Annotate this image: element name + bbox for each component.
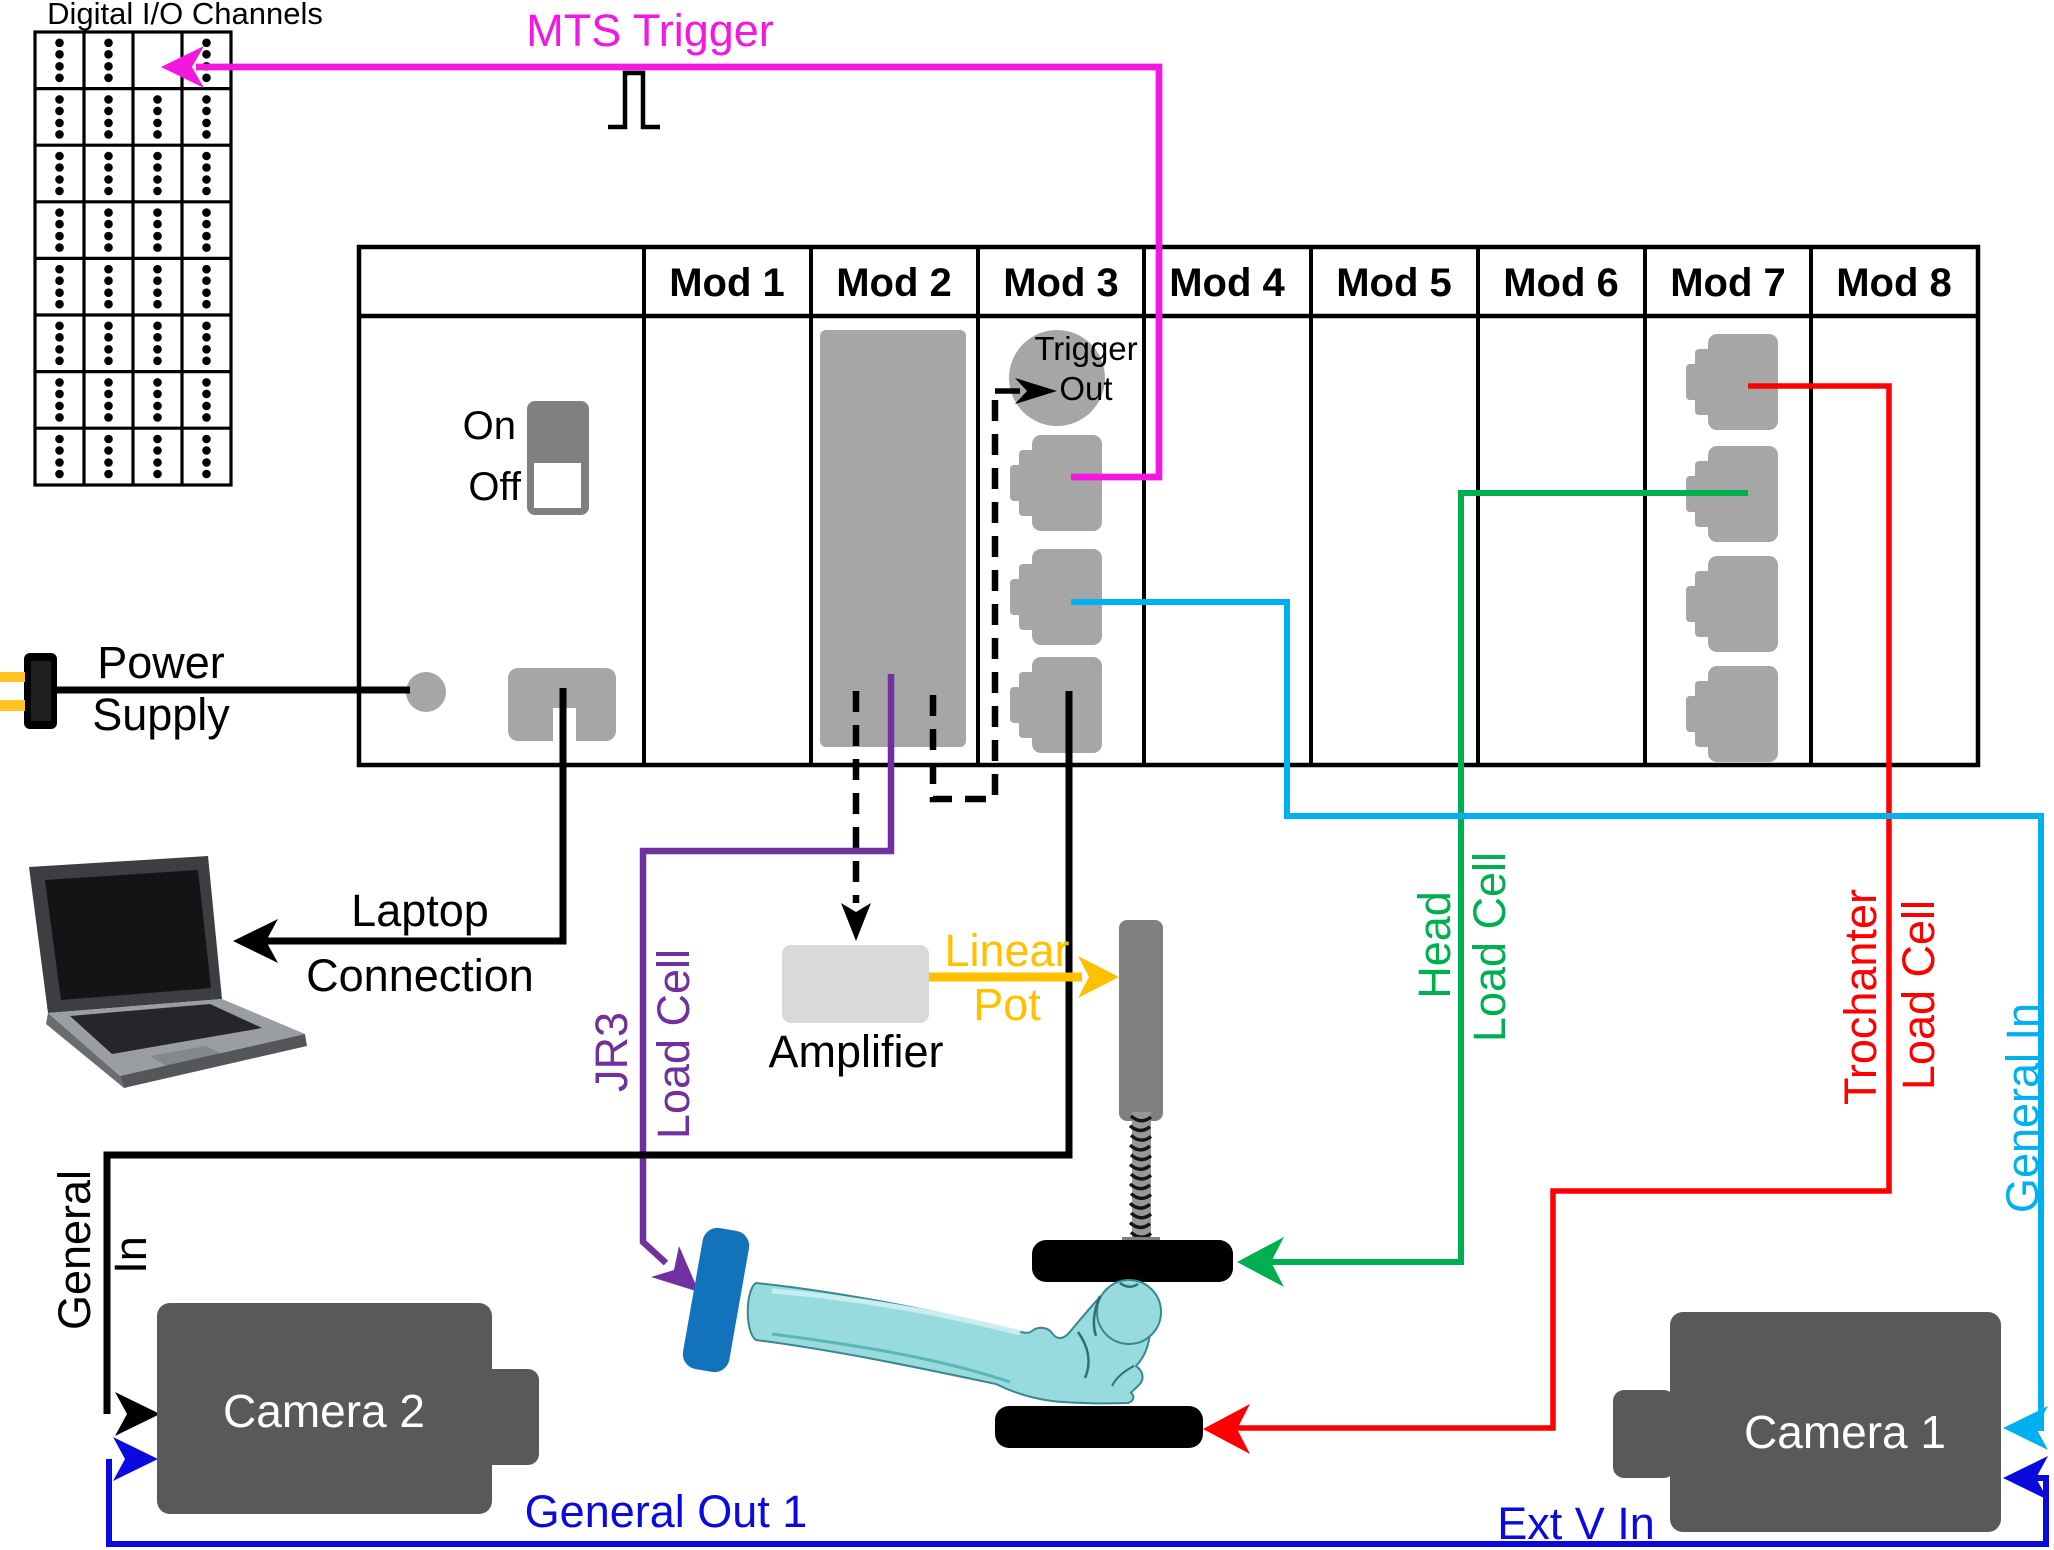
wire general in to camera 1 (cyan): [1071, 602, 2041, 1428]
svg-text:Mod 4: Mod 4: [1169, 261, 1285, 305]
power switch: [527, 401, 589, 515]
svg-text:On: On: [463, 404, 516, 448]
head fovea notch: [1120, 1283, 1138, 1287]
linear pot rod: [1119, 920, 1163, 1121]
plug prong 1: [0, 672, 25, 682]
arrowhead black into camera 2: [115, 1392, 160, 1436]
svg-text:Camera 1: Camera 1: [1744, 1406, 1946, 1458]
femoral head: [1097, 1280, 1161, 1344]
module 3 connector 2: [1010, 549, 1102, 645]
module 7 connector 3: [1686, 556, 1778, 652]
svg-text:Load Cell: Load Cell: [1893, 900, 1944, 1090]
svg-text:Ext V In: Ext V In: [1497, 1498, 1655, 1549]
svg-text:Trigger: Trigger: [1034, 330, 1137, 367]
femur body outline: [748, 1283, 1150, 1403]
arrowhead JR3 (purple): [651, 1246, 699, 1292]
intertrochanteric crease: [1078, 1332, 1089, 1378]
svg-text:Mod 3: Mod 3: [1003, 261, 1119, 305]
svg-text:Mod 5: Mod 5: [1336, 261, 1452, 305]
arrowhead blue into camera 2: [113, 1437, 158, 1481]
svg-text:Amplifier: Amplifier: [768, 1026, 943, 1077]
wire MTS trigger (magenta): [196, 67, 1159, 477]
wire general out 1 / ext v in (blue): [109, 1459, 2046, 1544]
svg-text:General: General: [49, 1170, 100, 1330]
module 3 connector 3: [1010, 657, 1102, 753]
svg-text:Pot: Pot: [973, 979, 1041, 1030]
wire trochanter load cell (red): [1211, 386, 1889, 1428]
module 2 card: [820, 330, 966, 747]
dashed wire module 2 to amplifier: [853, 691, 860, 903]
arrowhead into amplifier: [841, 903, 871, 941]
wire head load cell (green): [1245, 493, 1748, 1262]
dashed wire module 2 to trigger out: [933, 391, 995, 799]
svg-text:Out: Out: [1059, 370, 1112, 407]
neck under-crease: [1112, 1366, 1134, 1386]
module 7 connector 1: [1686, 334, 1778, 430]
svg-text:Trochanter: Trochanter: [1835, 889, 1886, 1105]
trigger out circle: [1009, 330, 1105, 426]
svg-text:Power: Power: [97, 637, 225, 688]
shaft highlight: [772, 1291, 1020, 1333]
plug prong 2: [0, 700, 25, 711]
svg-text:Laptop: Laptop: [351, 885, 489, 936]
digital I/O terminal block grid: [35, 32, 231, 485]
impact hammer pad (blue): [680, 1226, 751, 1375]
head-neck crease: [1094, 1296, 1100, 1336]
spring (threaded shaft): [1132, 1112, 1151, 1242]
svg-text:Connection: Connection: [306, 950, 534, 1001]
svg-text:In: In: [105, 1236, 156, 1274]
svg-text:Mod 1: Mod 1: [669, 261, 785, 305]
camera 1 lens: [1613, 1390, 1675, 1478]
lower platen (trochanter load cell): [995, 1406, 1203, 1448]
amplifier box: [782, 945, 929, 1023]
svg-text:Digital I/O Channels: Digital I/O Channels: [47, 0, 323, 31]
camera 2 body: [157, 1303, 492, 1514]
wire laptop connection: [240, 688, 563, 941]
arrowhead red into lower platen: [1203, 1404, 1250, 1454]
camera 2 lens: [480, 1369, 539, 1465]
wire power supply to chassis: [56, 687, 410, 694]
svg-text:Mod 7: Mod 7: [1670, 261, 1786, 305]
power supply plug: [24, 653, 57, 729]
svg-text:Mod 6: Mod 6: [1503, 261, 1619, 305]
wire linear pot (orange): [929, 973, 1082, 982]
spring base block: [1122, 1237, 1160, 1258]
svg-text:MTS Trigger: MTS Trigger: [526, 5, 774, 56]
femur bone: [748, 1280, 1161, 1403]
svg-text:Off: Off: [468, 465, 522, 509]
arrowhead green into upper platen: [1237, 1237, 1284, 1287]
svg-text:Camera 2: Camera 2: [223, 1385, 425, 1437]
pulse symbol: [608, 73, 660, 127]
laptop: [29, 856, 307, 1088]
svg-text:Load Cell: Load Cell: [648, 949, 699, 1139]
arrowhead blue into camera 1: [2003, 1456, 2048, 1500]
svg-text:Linear: Linear: [944, 925, 1069, 976]
shaft lower shadow: [772, 1334, 1010, 1382]
arrowhead laptop connection: [233, 919, 278, 963]
module 7 connector 2: [1686, 446, 1778, 542]
upper platen (head load cell): [1032, 1240, 1233, 1282]
arrowhead linear pot: [1078, 956, 1119, 998]
svg-text:Mod 8: Mod 8: [1836, 261, 1952, 305]
svg-text:Load Cell: Load Cell: [1464, 852, 1515, 1042]
arrowhead cyan into camera 1: [2003, 1406, 2048, 1450]
svg-text:General Out 1: General Out 1: [525, 1486, 808, 1537]
arrowhead MTS trigger: [161, 46, 204, 88]
svg-text:Supply: Supply: [92, 689, 230, 740]
module header labels: [669, 261, 1952, 305]
wire general in to camera 2 (black): [107, 691, 1069, 1414]
svg-text:JR3: JR3: [586, 1012, 637, 1092]
module 7 connector 4: [1686, 666, 1778, 762]
digital I/O terminal dots: [55, 39, 211, 479]
power inlet circle: [406, 672, 446, 712]
svg-text:Mod 2: Mod 2: [836, 261, 952, 305]
wire JR3 load cell (purple): [643, 674, 891, 1263]
laptop port connector: [508, 668, 616, 741]
arrowhead into trigger out: [1015, 378, 1057, 404]
DAQ chassis outline: [359, 247, 1978, 765]
module 3 connector 1: [1010, 435, 1102, 531]
svg-text:Head: Head: [1409, 891, 1460, 999]
camera 1 body: [1670, 1312, 2001, 1532]
